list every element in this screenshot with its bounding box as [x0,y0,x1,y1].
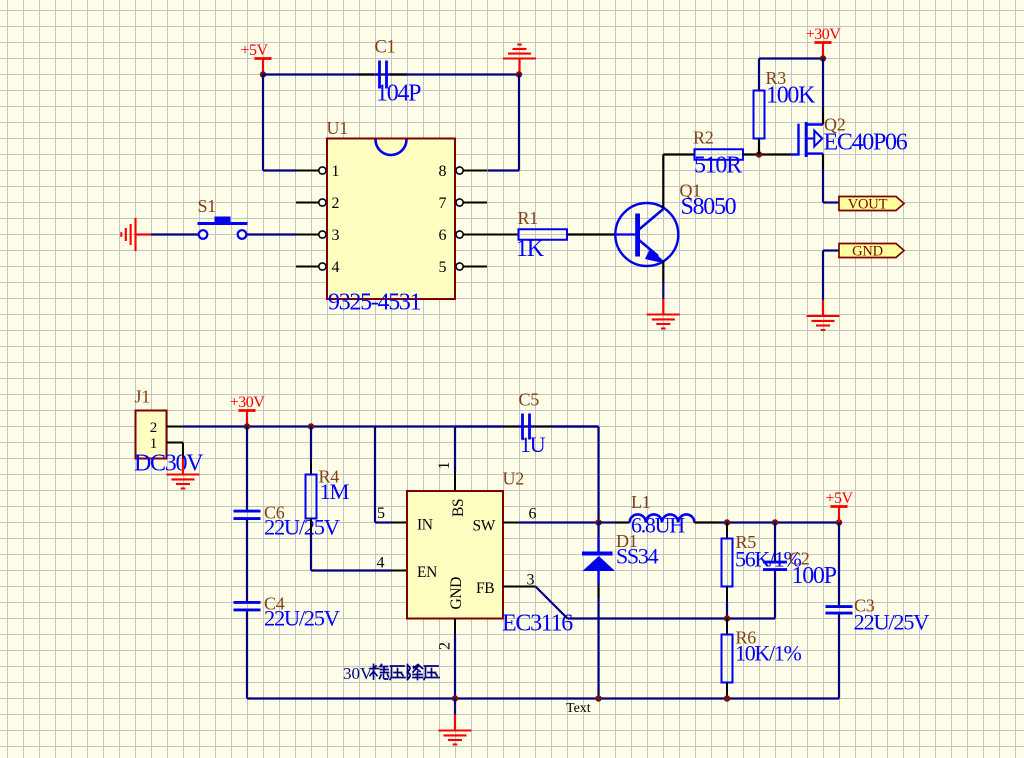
junction C2 top [772,519,778,525]
value 9325-4531 [328,290,421,316]
svg-text:R2: R2 [693,128,713,148]
ground left of S1 [121,218,151,251]
port GND [839,244,904,260]
U2 pin 3 number [527,572,535,589]
diode D1 [582,523,615,699]
transistor Q1 [615,203,678,266]
U1 pin 4 [296,259,340,276]
wire 30V rail [183,425,599,427]
inductor L1 [630,514,695,522]
svg-text:1: 1 [436,462,453,470]
U2 pin 5 number [377,505,385,522]
svg-text:2: 2 [332,195,340,212]
power +5V top [240,42,271,75]
junction 30V rail at R4 [308,423,314,429]
junction bottom rail R6 [724,695,730,701]
junction +5V node [836,519,842,525]
svg-text:1M: 1M [320,479,350,504]
junction at +5V node [260,71,266,77]
wire C6 C4 branch [246,427,248,699]
svg-text:510R: 510R [694,153,742,179]
U2 pin IN name [417,517,433,534]
value EC40P06 [824,130,908,156]
value C4 22U/25V [264,606,340,631]
value 1M [320,479,350,504]
wire BS to C5 [455,425,519,427]
svg-text:9325-4531: 9325-4531 [328,290,421,316]
resistor R1 [519,229,568,240]
wire R5 top stub [726,523,728,539]
IC U2 body [407,491,503,619]
wire Q1 emitter [662,261,664,299]
junction +30V node [820,55,826,61]
value 1K [516,236,545,262]
wire U1 pin6 to R1 [487,234,519,236]
value SS34 [616,544,659,569]
U1 pin 5 [439,259,488,276]
svg-text:GND: GND [448,577,465,610]
mosfet Q2 [791,122,823,157]
svg-text:4: 4 [332,259,340,276]
svg-text:100P: 100P [792,563,837,589]
capacitor C6 [234,511,261,519]
svg-text:VOUT: VOUT [848,197,888,213]
svg-text:5: 5 [377,505,385,522]
svg-text:S8050: S8050 [681,194,737,220]
wire +30V to Q2 source [822,59,824,125]
U1 pin 8 [439,163,488,180]
svg-text:22U/25V: 22U/25V [264,515,340,540]
svg-text:+5V: +5V [825,490,853,507]
svg-text:22U/25V: 22U/25V [264,606,340,631]
wire SW node to L1 [599,521,630,523]
ground at J1 [167,459,200,489]
U2 BS pin wire [454,427,456,492]
value 1U [520,432,546,457]
U1 pin 2 [296,195,340,212]
U1 pin 3 [296,227,340,244]
wire GND port [823,251,839,301]
resistor R3 [754,91,765,139]
U1 pin 7 [439,195,488,212]
svg-text:1U: 1U [520,432,546,457]
svg-text:10K/1%: 10K/1% [735,641,802,666]
power +30V top [806,26,842,59]
label Q2 [824,115,845,135]
wire R6 top stub [726,619,728,635]
svg-text:S1: S1 [198,196,216,216]
value 100P [792,563,837,589]
junction node A [756,151,762,157]
svg-text:IN: IN [417,517,433,534]
ground Q1 emitter [647,299,680,329]
junction R5 top [724,519,730,525]
svg-text:6: 6 [529,506,537,523]
text note Text [566,701,591,716]
wire R2 to node A [743,153,792,155]
text 30V regulator note [343,664,439,683]
capacitor C2 [763,562,787,570]
J1 pin 1 wire [167,443,184,459]
svg-text:L1: L1 [631,492,650,512]
wire C5 to SW node [533,427,599,523]
U2 FB pin wire [503,586,536,588]
svg-text:R1: R1 [518,208,538,228]
U2 pin EN name [417,564,437,581]
junction at top ground [516,71,522,77]
U2 pin BS name [450,499,467,517]
wire Q2 drain to VOUT [823,154,839,203]
power +5V bottom [825,490,853,523]
resistor R4 [306,475,317,519]
wire bottom rail [247,697,839,699]
svg-text:J1: J1 [135,387,150,407]
junction bottom rail U2 [452,695,458,701]
label C5 [519,390,540,410]
capacitor C3 [826,607,853,614]
wire R6 bottom stub [726,683,728,699]
value EC3116 [502,611,573,637]
value 100K [766,83,816,109]
svg-text:2: 2 [150,420,158,436]
value 510R [694,153,742,179]
wire bottom ground stub [454,699,456,715]
svg-text:U2: U2 [503,469,524,489]
svg-text:C1: C1 [375,38,396,58]
svg-text:EC40P06: EC40P06 [824,130,908,156]
wire S1 to U1 pin3 [247,233,297,235]
value S8050 [681,194,737,220]
J1 pin 2 wire [167,426,184,428]
ground below GND port [807,300,840,330]
switch S1 [198,217,248,239]
label R4 [319,467,340,487]
label J1 [135,387,150,407]
value 56K/1% [735,547,802,572]
svg-text:EN: EN [417,564,437,581]
value 6.8UH [631,513,685,538]
U2 pin SW name [473,518,496,535]
svg-text:SW: SW [473,518,496,535]
label D1 [616,531,637,551]
U2 GND pin wire [454,619,456,699]
svg-text:U1: U1 [327,118,348,138]
value DC30V [134,451,204,477]
resistor R5 [722,539,733,587]
junction FB node at R6 [724,615,730,621]
capacitor C5 [519,414,534,440]
label C4 [264,594,285,614]
svg-text:1: 1 [332,163,340,180]
label C2 [789,549,809,569]
wire C1 pin stubs [358,73,407,75]
svg-text:3: 3 [332,227,340,244]
svg-text:30V: 30V [343,664,373,683]
svg-text:BS: BS [450,499,467,517]
value 104P [376,81,421,107]
U2 pin 6 number [529,506,537,523]
svg-text:C5: C5 [519,390,540,410]
value 10K/1% [735,641,802,666]
label C3 [854,596,875,616]
wire R5 bottom stub [726,587,728,619]
wire R3 top to +30V [759,59,823,91]
svg-text:2: 2 [437,642,454,650]
label R2 [693,128,713,148]
label C6 [264,503,285,523]
wire R4 top [310,427,312,475]
svg-text:6: 6 [439,227,447,244]
port VOUT [839,197,904,213]
U2 pin 1 number [436,462,453,470]
resistor R2 [695,149,744,160]
wire R4 to EN [311,519,407,571]
label L1 [631,492,650,512]
wire FB diagonal [536,587,568,619]
wire ground to S1 [151,233,198,235]
svg-text:100K: 100K [766,83,816,109]
U2 pin 4 number [377,555,385,572]
svg-text:SS34: SS34 [616,544,659,569]
label R3 [766,68,787,88]
svg-text:+30V: +30V [806,26,842,43]
label U2 [503,469,524,489]
ground bottom [439,715,472,745]
svg-text:4: 4 [377,555,385,572]
svg-text:Text: Text [566,701,591,716]
ground top right [503,45,536,75]
junction SW node [595,519,601,525]
wire 30V rail to IN [375,427,407,523]
U1 pin 6 [439,227,488,244]
IC U1 body [327,139,455,300]
svg-text:GND: GND [852,244,883,260]
svg-text:1K: 1K [516,236,545,262]
connector J1 [136,411,167,459]
wire R1 to Q1 base [567,233,615,235]
U1 pin 1 [296,163,340,180]
svg-text:104P: 104P [376,81,421,107]
wire Q1 collector [663,155,694,210]
label R1 [518,208,538,228]
U2 pin GND name [448,577,465,610]
junction 30V rail at C6 [244,423,250,429]
wire C3 branch [838,523,840,699]
label R5 [736,532,757,552]
value C3 22U/25V [854,610,930,635]
junction bottom rail D1 [595,695,601,701]
svg-text:5: 5 [439,259,447,276]
svg-text:3: 3 [527,572,535,589]
power +30V bottom [230,394,266,427]
label S1 [198,196,216,216]
label Q1 [680,181,701,201]
svg-text:+30V: +30V [230,394,266,411]
svg-text:FB: FB [476,580,494,597]
svg-text:7: 7 [439,195,447,212]
svg-text:8: 8 [439,163,447,180]
wire FB horizontal [568,617,776,619]
svg-text:22U/25V: 22U/25V [854,610,930,635]
U2 pin FB name [476,580,494,597]
label U1 [327,118,348,138]
wire C2 branch [774,523,776,619]
wire +5V rail [263,73,519,75]
value C6 22U/25V [264,515,340,540]
label R6 [736,628,757,648]
capacitor C1 [376,61,391,89]
label C1 [375,38,396,58]
wire +5V to U1 pin1 [263,75,296,171]
wire L1 to +5V node [694,521,839,523]
capacitor C4 [234,602,261,610]
svg-text:6.8UH: 6.8UH [631,513,685,538]
wire top ground to U1 pin8 [488,75,520,171]
resistor R6 [722,635,733,683]
svg-text:+5V: +5V [240,42,268,59]
U2 pin 2 number [437,642,454,650]
svg-text:DC30V: DC30V [134,451,204,477]
wire node A to R3 [758,139,760,155]
U2 SW pin wire [503,522,599,524]
